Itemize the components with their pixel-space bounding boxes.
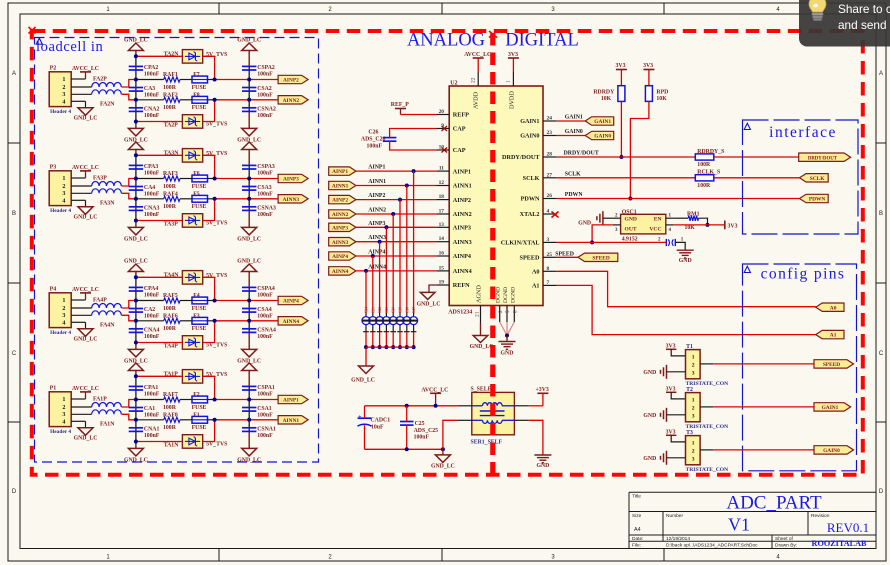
svg-text:C19: C19 [399,307,403,313]
ground GND_LC [470,323,494,350]
wire [136,220,183,222]
svg-text:100R: 100R [163,326,177,332]
svg-text:GND_LC: GND_LC [237,237,261,243]
wire [71,178,92,200]
svg-text:AINP4: AINP4 [453,253,471,260]
connector P2 [49,66,71,116]
svg-text:11: 11 [439,166,444,172]
wire [71,79,92,101]
svg-text:100nF: 100nF [144,433,160,439]
svg-text:21: 21 [474,311,480,317]
svg-text:FA3N: FA3N [100,201,115,207]
svg-text:AINP4: AINP4 [283,299,299,305]
svg-text:27: 27 [547,172,553,178]
svg-text:3V3: 3V3 [508,52,518,58]
wire [135,277,137,342]
svg-text:CA2: CA2 [144,307,155,313]
junction dots [134,153,251,222]
svg-text:FUSE: FUSE [192,425,207,431]
svg-text:100nF: 100nF [257,413,273,419]
svg-text:100nF: 100nF [257,392,273,398]
svg-text:SCLK: SCLK [523,175,540,182]
wire [215,419,279,421]
connector P4 [49,287,71,337]
svg-text:100nF: 100nF [144,334,160,340]
svg-text:SPEED: SPEED [555,251,574,257]
svg-text:1: 1 [62,76,65,83]
fuse F5 [192,191,208,210]
wire [136,441,183,443]
svg-text:AINP2: AINP2 [368,193,385,199]
svg-text:CSNA3: CSNA3 [257,205,276,211]
svg-text:100R: 100R [163,425,177,431]
node SPEED [555,251,578,257]
svg-text:3V3: 3V3 [616,63,626,69]
svg-text:22: 22 [471,77,477,83]
svg-text:CPA1: CPA1 [144,385,158,391]
port AINN4 [278,317,308,325]
svg-text:A0: A0 [532,269,540,276]
wire [514,405,543,407]
svg-text:FUSE: FUSE [192,306,207,312]
resistor RCLK_S [695,170,720,189]
wire [700,406,814,408]
svg-text:C26: C26 [368,130,378,136]
svg-text:GND_LC: GND_LC [431,464,455,470]
no-ERC marker CAP pin 9 [442,126,448,131]
svg-text:CA1: CA1 [144,406,155,412]
port SCLK [800,174,829,182]
svg-text:Header 4: Header 4 [50,429,71,435]
svg-text:PDWN: PDWN [809,197,826,203]
svg-text:AINP2: AINP2 [283,78,299,84]
svg-text:CNA2: CNA2 [144,106,160,112]
svg-text:AINP1: AINP1 [453,168,471,175]
loadcell region box [35,38,319,463]
svg-text:CSNA1: CSNA1 [257,426,276,432]
ground GND [578,211,612,226]
svg-text:FA4N: FA4N [100,323,115,329]
svg-text:16: 16 [439,251,445,257]
svg-text:CNA3: CNA3 [144,205,160,211]
svg-text:CA4: CA4 [144,185,155,191]
svg-text:AINN4: AINN4 [283,319,300,325]
TVS diode TA4P [164,336,228,350]
wire [248,287,250,332]
svg-text:GND_LC: GND_LC [74,116,98,122]
svg-text:CAP: CAP [453,147,466,154]
label config pins [761,266,846,283]
wire [136,342,183,344]
svg-text:100R: 100R [697,162,711,168]
svg-text:FUSE: FUSE [192,105,207,111]
wire [401,114,437,116]
svg-text:REV0.1: REV0.1 [827,520,869,535]
svg-text:AVCC_LC: AVCC_LC [464,52,491,58]
resistor RM1 [685,212,700,232]
svg-text:AINP3: AINP3 [332,225,348,231]
wire [136,419,215,421]
svg-text:100nF: 100nF [144,293,160,299]
wire [136,178,215,180]
ground GND [534,455,551,469]
label ANALOG [407,31,485,51]
svg-text:interface: interface [769,124,837,141]
wire [699,218,710,227]
svg-text:10K: 10K [685,225,696,231]
power REF_P [391,102,409,115]
svg-text:1: 1 [692,397,695,403]
resistor RDRDY [593,86,625,102]
svg-text:1: 1 [62,175,65,182]
oscillator OSC1 [613,209,674,234]
svg-text:GAIN1: GAIN1 [822,405,839,411]
ferrite bead FA1N [92,410,122,428]
svg-text:CNA4: CNA4 [144,327,160,333]
svg-text:CPA2: CPA2 [144,65,158,71]
wire [203,199,215,221]
svg-text:ROOZITALAB: ROOZITALAB [812,539,867,548]
wire [135,376,137,441]
node AINN1 [356,179,437,188]
svg-text:REFP: REFP [453,112,469,119]
svg-text:Date:: Date: [632,536,643,542]
svg-text:CPA4: CPA4 [144,286,158,292]
svg-text:GAIN0: GAIN0 [823,448,840,454]
svg-text:FA3P: FA3P [93,176,107,182]
capacitor CADC1 [358,414,391,431]
svg-text:AINN2: AINN2 [453,211,472,218]
wire [136,320,215,322]
svg-text:FA1P: FA1P [93,397,107,403]
wire [674,224,725,226]
label REV0.1 [827,520,869,535]
svg-text:FA2N: FA2N [100,102,115,108]
ferrite bead FA4P [92,298,122,309]
capacitor CSA3 [242,185,273,198]
port GAIN0 [814,446,854,454]
svg-text:loadcell in: loadcell in [36,39,104,55]
port AINN2 [278,96,308,104]
resistor RAF1 [163,72,180,91]
svg-text:8: 8 [547,266,550,272]
svg-text:5V_TVS: 5V_TVS [206,273,227,279]
svg-text:SER1_SELF: SER1_SELF [471,440,503,446]
ferrite bead FA2N [92,90,122,108]
svg-text:FUSE: FUSE [192,85,207,91]
svg-text:GND_LC: GND_LC [74,337,98,343]
transistor-connector T2 [686,387,729,430]
wire [203,420,215,442]
svg-text:AINP2: AINP2 [332,198,348,204]
svg-text:GND: GND [578,221,591,227]
wire [203,321,215,343]
capacitor CNA2 [129,106,160,119]
wire [390,141,437,150]
capacitor CPA3 [129,164,160,177]
svg-text:B: B [12,211,16,217]
svg-text:100R: 100R [163,105,177,111]
ground GND_LC [74,322,98,342]
svg-text:CSA1: CSA1 [257,406,272,412]
svg-text:AINP1: AINP1 [283,398,299,404]
wire [136,198,215,200]
svg-text:CADC1: CADC1 [371,418,391,424]
label V1 [728,515,750,535]
svg-text:2: 2 [62,305,65,312]
wire [700,363,814,365]
svg-text:TRISTATE_CON: TRISTATE_CON [686,424,729,430]
power AVCC_LC [72,287,99,300]
capacitor CSNA2 [242,106,276,119]
svg-text:100nF: 100nF [144,113,160,119]
wire [674,217,689,219]
wire [215,99,279,101]
svg-text:AINP1: AINP1 [368,165,385,171]
svg-text:100nF: 100nF [257,171,273,177]
wire [557,241,667,243]
wire [406,406,408,450]
svg-text:FA2P: FA2P [93,77,107,83]
resistor RAF3 [163,171,180,190]
ground GND_LC [242,142,257,165]
power 3V3 [616,63,627,86]
svg-text:10uF: 10uF [371,424,384,430]
wire [714,156,799,158]
svg-text:TRISTATE_CON: TRISTATE_CON [686,381,729,387]
ground GND_LC [124,442,148,464]
svg-text:100nF: 100nF [257,433,273,439]
no-ERC marker XTAL2 [552,212,559,218]
node AINP3 [356,221,437,230]
op-amp U2 ADS1234 IC body [448,81,543,316]
share popup [799,0,890,47]
svg-text:3: 3 [692,413,695,419]
wire [71,399,92,421]
svg-text:DRDY/DOUT: DRDY/DOUT [502,154,540,161]
svg-text:C20: C20 [392,307,396,313]
resistor RDRDY_S [695,149,724,168]
TVS diode TA1N [164,435,228,449]
svg-text:12: 12 [439,180,445,186]
svg-text:GND: GND [679,258,692,264]
svg-text:5V_TVS: 5V_TVS [206,122,227,128]
svg-text:FUSE: FUSE [192,326,207,332]
junction dots [134,374,251,443]
svg-text:C23: C23 [371,307,375,313]
port AINP1 [278,395,308,403]
svg-text:13: 13 [439,222,445,228]
svg-text:100nF: 100nF [144,212,160,218]
power 3V3 [725,221,738,230]
svg-text:100nF: 100nF [414,435,430,441]
port AINN1 [278,416,308,424]
ground GND_LC [74,421,98,441]
svg-text:V1: V1 [728,515,750,535]
svg-text:ADC_PART: ADC_PART [726,493,822,514]
svg-text:CSNA4: CSNA4 [257,327,276,333]
wire [248,386,250,431]
wire [135,155,137,220]
port AINP2 [329,195,356,203]
port AINP1 [329,167,356,175]
wire [675,242,685,250]
junction dots [134,54,251,123]
ground GND_LC [237,210,261,242]
wire [215,399,279,401]
wire [203,277,215,300]
svg-text:C21: C21 [385,307,389,313]
svg-text:Number: Number [666,513,683,519]
svg-text:SPEED: SPEED [823,362,840,368]
svg-text:AINP1: AINP1 [332,169,348,175]
svg-text:ADS_C25: ADS_C25 [414,428,439,434]
ground GND_LC [351,366,375,384]
svg-text:2: 2 [692,405,695,411]
svg-text:P4: P4 [50,287,57,293]
svg-text:A1: A1 [830,333,837,339]
svg-text:Drawn By:: Drawn By: [775,543,797,549]
power 3V3 [643,63,654,86]
port AINP3 [329,223,356,231]
svg-text:DVDD: DVDD [509,91,516,109]
svg-text:14: 14 [439,236,445,242]
svg-text:3: 3 [692,456,695,462]
svg-text:REF_P: REF_P [391,102,409,108]
svg-text:DGND: DGND [503,287,509,303]
title block [629,492,876,548]
node GAIN0 [557,129,585,136]
wire [248,66,250,111]
svg-text:100nF: 100nF [367,144,383,150]
node AINN4 [356,264,437,273]
svg-text:25: 25 [547,252,553,258]
svg-text:FA1N: FA1N [100,422,115,428]
svg-text:VCC: VCC [649,227,661,233]
svg-text:PDWN: PDWN [565,192,584,198]
capacitor CSPA3 [242,164,275,177]
svg-text:SPEED: SPEED [592,255,609,261]
svg-text:AINP2: AINP2 [453,197,471,204]
port AINP4 [329,252,356,260]
TVS diode TA2N [164,50,228,64]
svg-text:3: 3 [692,370,695,376]
svg-text:GND_LC: GND_LC [417,302,441,308]
svg-text:OUT: OUT [625,227,637,233]
node PDWN [557,192,800,199]
resistor RAF4 [163,191,180,210]
svg-text:GND_LC: GND_LC [74,215,98,221]
svg-text:GND: GND [643,413,656,419]
svg-text:AINN1: AINN1 [332,184,349,190]
svg-text:19: 19 [439,280,445,286]
power 3V3 [666,387,686,399]
svg-text:FUSE: FUSE [192,184,207,190]
wire [514,420,543,455]
svg-text:AINN3: AINN3 [453,239,472,246]
svg-text:AINP4: AINP4 [368,250,385,256]
wire [203,155,215,178]
port AINN4 [329,267,356,275]
ferrite bead FA3N [92,189,122,207]
svg-text:10K: 10K [656,96,667,102]
svg-text:1: 1 [692,354,695,360]
wire [203,376,215,399]
svg-text:100nF: 100nF [144,392,160,398]
wire [215,300,279,302]
svg-text:CLKIN/XTAL: CLKIN/XTAL [501,240,540,247]
svg-text:AINN3: AINN3 [283,197,300,203]
wire [136,399,215,401]
capacitor CSA1 [242,406,273,419]
svg-text:28: 28 [547,152,553,158]
node AINP1 [356,165,437,174]
svg-text:Header 4: Header 4 [50,208,71,214]
wire [136,121,183,123]
wire [122,94,136,100]
svg-text:AINP3: AINP3 [368,221,385,227]
svg-text:FA4P: FA4P [93,298,107,304]
svg-text:GND: GND [501,350,514,356]
ground GND_LC [74,101,98,121]
power AVCC_LC [421,387,448,406]
capacitor CNA4 [129,327,160,340]
svg-text:5V_TVS: 5V_TVS [206,343,227,349]
capacitor CA1 [129,406,160,419]
svg-text:100nF: 100nF [257,113,273,119]
svg-text:1: 1 [692,440,695,446]
wire [366,347,414,366]
svg-text:GND_LC: GND_LC [124,237,148,243]
svg-text:3: 3 [62,411,65,418]
svg-text:Header 4: Header 4 [50,330,71,336]
svg-text:15: 15 [439,265,445,271]
svg-text:EN: EN [654,217,662,223]
svg-text:GND_LC: GND_LC [74,436,98,442]
svg-text:5V_TVS: 5V_TVS [206,221,227,227]
power AVCC_LC [464,52,491,72]
svg-text:CNA1: CNA1 [144,426,160,432]
resistor RAF5 [163,293,180,312]
node AINN2 [356,208,437,217]
svg-text:Size: Size [632,513,642,519]
svg-text:4: 4 [62,419,65,426]
svg-text:GAIN1: GAIN1 [520,118,539,125]
power 3V3 [666,430,686,442]
svg-text:GND: GND [625,217,637,223]
svg-text:4: 4 [62,198,65,205]
label ROOZITALAB [812,539,867,548]
svg-text:AINN2: AINN2 [368,208,386,214]
svg-text:RDRDY: RDRDY [593,89,615,95]
svg-text:C18: C18 [405,307,409,313]
capacitor CSPA4 [242,286,275,299]
svg-text:100nF: 100nF [144,171,160,177]
connector P3 [49,165,71,215]
wire A0 [557,271,816,306]
svg-text:GAIN0: GAIN0 [594,134,611,140]
capacitor CPA2 [129,65,160,78]
svg-text:17: 17 [439,209,445,215]
ground GND_LC [417,285,441,308]
TVS diode TA2P [164,115,228,129]
svg-text:AINP4: AINP4 [332,254,348,260]
capacitor CSPA1 [242,385,275,398]
ground GND_LC [124,221,148,243]
svg-text:XTAL2: XTAL2 [520,211,540,218]
port AINN3 [278,195,308,203]
TVS diode TA3N [164,149,228,163]
